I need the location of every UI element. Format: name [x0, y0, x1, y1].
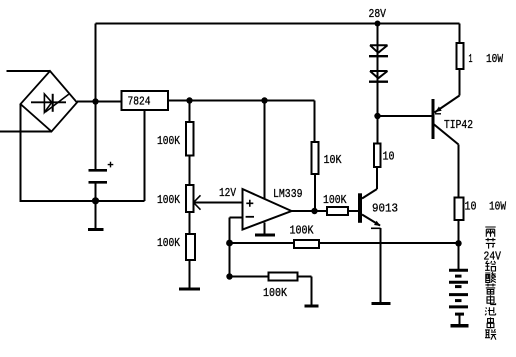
- svg-text:10W: 10W: [486, 52, 504, 66]
- wire base node to TIP42: [378, 115, 432, 117]
- wire capacitor bottom lead: [95, 184, 97, 229]
- battery B1: [449, 270, 468, 307]
- node battery junction: [455, 240, 461, 246]
- glyph jie: [486, 238, 496, 249]
- wire top rail 28V: [96, 23, 460, 25]
- diode D6: [369, 71, 388, 82]
- glyph lian: [485, 329, 496, 340]
- svg-text:100K: 100K: [157, 193, 181, 207]
- svg-text:12V: 12V: [219, 186, 237, 200]
- node capacitor ground junction: [92, 197, 99, 204]
- svg-text:10: 10: [465, 200, 477, 214]
- resistor R5 100K: [186, 234, 195, 260]
- glyph xu: [485, 284, 495, 295]
- resistor R6 100K base: [327, 207, 348, 215]
- diode D5: [369, 45, 388, 56]
- node 28V junction: [375, 21, 381, 27]
- node LM339 supply junction: [261, 97, 267, 103]
- ground below battery: [451, 314, 469, 326]
- capacitor C1: [89, 162, 114, 183]
- svg-text:28V: 28V: [369, 7, 387, 21]
- node bridge output junction: [92, 98, 98, 104]
- ground below divider: [179, 288, 200, 291]
- wire AC input top stub: [7, 70, 51, 72]
- wire main left vertical: [95, 24, 97, 170]
- svg-text:100K: 100K: [290, 224, 315, 238]
- svg-text:100K: 100K: [323, 193, 347, 207]
- node output junction: [311, 208, 317, 214]
- wire AC input bottom stub: [0, 131, 52, 133]
- wire 9013 collector: [376, 167, 378, 189]
- svg-text:10W: 10W: [489, 200, 507, 214]
- resistor R7 10ohm: [374, 144, 381, 168]
- glyph dian: [487, 295, 496, 304]
- bridge rectifier: [21, 71, 78, 132]
- node reference junction: [226, 273, 232, 279]
- wire bridge negative lead: [20, 104, 22, 201]
- ground below 9013: [372, 302, 391, 305]
- svg-text:1: 1: [469, 52, 473, 66]
- wire R1 to TIP42 emitter: [459, 69, 461, 96]
- ground below capacitor: [88, 228, 104, 231]
- node feedback junction: [226, 240, 233, 247]
- wire R7 to base node: [377, 116, 379, 144]
- svg-text:LM339: LM339: [273, 187, 303, 201]
- node divider junction: [186, 97, 192, 103]
- wire minus input: [230, 217, 243, 219]
- resistor R2 10ohm: [455, 198, 464, 221]
- wire R5 to ground: [189, 260, 191, 288]
- wire minus input vertical: [229, 218, 231, 277]
- svg-text:7824: 7824: [128, 95, 151, 109]
- glyph chi: [485, 307, 496, 315]
- wire rail to divider: [189, 101, 191, 123]
- wire R2 to battery: [458, 220, 460, 269]
- wire R6 to 9013 base: [348, 210, 358, 212]
- svg-text:10K: 10K: [324, 153, 343, 167]
- wire 9013 emitter to ground: [380, 228, 382, 302]
- svg-text:100K: 100K: [263, 286, 288, 300]
- voltage regulator 7824: [122, 91, 169, 110]
- svg-text:TIP42: TIP42: [444, 118, 473, 132]
- glyph liang: [485, 227, 495, 237]
- wire bridge positive output: [77, 101, 122, 103]
- wire reference row: [230, 276, 269, 278]
- resistor R9 100K reference: [269, 273, 298, 281]
- glyph chuan: [487, 317, 494, 328]
- wire LM339 output: [292, 210, 328, 212]
- wire feedback row: [230, 242, 459, 244]
- transistor TIP42: [433, 96, 460, 145]
- node TIP42 base junction: [374, 113, 380, 119]
- glyph suan: [485, 272, 496, 283]
- transistor Q1 9013: [360, 189, 381, 228]
- wire R4 to pot: [189, 156, 191, 186]
- op-amp LM339: [243, 189, 292, 230]
- ground below R9: [305, 305, 319, 308]
- wire 7824 ground pin: [144, 110, 146, 201]
- annotation chinese column: [484, 227, 502, 340]
- wire 10K to output: [314, 174, 316, 211]
- wire rail 7824 output: [168, 100, 315, 102]
- wire R9 to ground: [298, 277, 312, 305]
- wire wiper to plus input: [193, 202, 243, 204]
- resistor R8 100K feedback: [294, 240, 319, 248]
- resistor R4 100K: [186, 122, 194, 156]
- wire TIP42 collector drop: [458, 145, 460, 198]
- wire LM339 V+: [264, 101, 266, 199]
- potentiometer RP 100K: [186, 185, 201, 212]
- wire ground rail bottom-left: [20, 200, 145, 202]
- svg-text:9013: 9013: [372, 202, 398, 216]
- resistor R1 1ohm: [457, 43, 464, 69]
- wire rail to 10K: [314, 101, 316, 143]
- wire pot to R5: [189, 212, 191, 234]
- svg-text:100K: 100K: [157, 236, 181, 250]
- wire diode column: [377, 24, 379, 117]
- svg-text:10: 10: [383, 150, 395, 164]
- svg-text:100K: 100K: [157, 134, 181, 148]
- glyph qian: [485, 261, 496, 271]
- wire top right corner drop: [459, 24, 461, 44]
- svg-text:24V: 24V: [484, 249, 502, 263]
- ground LM339: [255, 223, 275, 236]
- resistor R3 10K: [312, 142, 319, 174]
